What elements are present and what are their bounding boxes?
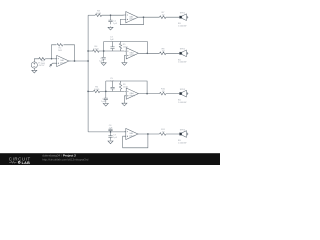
stage3 input wire xyxy=(88,90,93,92)
speaker SPK4 xyxy=(178,129,188,144)
svg-text:1.0000W: 1.0000W xyxy=(178,62,186,64)
junction bus stage3 xyxy=(87,91,89,93)
wire V1 top to R1 xyxy=(34,59,39,62)
capacitor C3 stage2 bridge xyxy=(110,37,115,51)
feedback wire U4 xyxy=(123,134,148,148)
svg-text:1kΩ: 1kΩ xyxy=(41,63,45,65)
svg-text:1μF: 1μF xyxy=(99,60,103,62)
svg-text:(ideal): (ideal) xyxy=(60,62,66,64)
stage2 non-inverting input to ground xyxy=(123,56,125,62)
resistor R5 stage2 bridge xyxy=(119,42,128,52)
svg-text:1Ω: 1Ω xyxy=(162,15,165,17)
svg-text:1μF: 1μF xyxy=(101,101,105,103)
svg-text:1μF: 1μF xyxy=(113,137,117,139)
svg-text:1.0000W: 1.0000W xyxy=(178,102,186,104)
speaker SPK1 xyxy=(178,13,188,28)
junction U2 output feedback xyxy=(146,52,148,54)
stage2 wire to op-amp xyxy=(99,50,124,52)
capacitor C2 stage2 to ground xyxy=(99,51,106,62)
junction bus op-amp output xyxy=(87,60,89,62)
stage2 output wire xyxy=(140,52,180,54)
speaker SPK3 xyxy=(178,89,188,104)
stage3 junction vertical to feedback line xyxy=(105,81,107,91)
node stage3 junction xyxy=(105,91,107,93)
svg-text:(ideal): (ideal) xyxy=(129,135,135,137)
junction U4 output feedback xyxy=(147,133,149,135)
resistor R1 xyxy=(39,57,45,64)
stage3 non-inverting input to ground xyxy=(123,96,125,103)
speaker SPK2 xyxy=(178,49,188,64)
resistor R9 stage3 bridge xyxy=(119,81,128,91)
op-amp U4 xyxy=(124,128,140,139)
CircuitLab logo xyxy=(9,156,31,164)
stage2 input wire xyxy=(88,50,93,52)
svg-text:(ideal): (ideal) xyxy=(129,19,135,21)
svg-text:LAB: LAB xyxy=(22,161,31,165)
ground stage2 op-amp xyxy=(122,62,127,66)
footer title text xyxy=(42,154,89,162)
node stage1 junction xyxy=(110,14,112,16)
stage1 output wire xyxy=(140,16,180,18)
bus vertical line xyxy=(87,15,89,132)
voltage source V1 xyxy=(31,62,45,68)
svg-text:1Ω: 1Ω xyxy=(162,91,165,93)
capacitor C1 stage1 xyxy=(108,15,117,25)
feedback resistor R2 xyxy=(56,43,63,52)
canvas background xyxy=(0,0,220,165)
svg-text:(ideal): (ideal) xyxy=(130,95,136,97)
svg-text:(ideal): (ideal) xyxy=(130,55,136,57)
ground stage3 cap xyxy=(103,103,108,107)
stage3 output wire xyxy=(140,93,180,95)
op-amp U0 xyxy=(55,55,71,66)
wire U0 output to bus xyxy=(70,60,88,62)
svg-text:1Ω: 1Ω xyxy=(162,131,165,133)
capacitor C4 stage3 to ground xyxy=(101,91,108,102)
stage4 output wire xyxy=(140,133,180,135)
node flag at U0 non-inverting input xyxy=(49,63,55,67)
svg-text:-1V/1V: -1V/1V xyxy=(38,65,45,67)
stage1 input wire xyxy=(88,14,95,16)
junction bus stage2 xyxy=(87,50,89,52)
capacitor C5 stage3 bridge xyxy=(110,78,115,91)
resistor R4 stage2 xyxy=(93,46,99,52)
junction U1 output feedback xyxy=(143,16,145,18)
resistor R8 stage2 output xyxy=(160,48,166,54)
svg-text:SPK3: SPK3 xyxy=(180,89,186,91)
svg-text:1μF: 1μF xyxy=(110,39,114,41)
svg-text:100Ω: 100Ω xyxy=(93,49,99,51)
ground stage3 op-amp xyxy=(122,102,127,106)
feedback loop wire around U0 xyxy=(52,45,75,61)
wire R1 to op-amp U0 inverting input xyxy=(45,58,55,60)
stage3 wire to op-amp xyxy=(100,90,124,92)
svg-text:1kΩ: 1kΩ xyxy=(58,50,62,52)
resistor R11 stage4 output xyxy=(160,129,166,135)
node stage4 junction xyxy=(110,131,112,133)
ground stage2 cap xyxy=(101,62,106,66)
svg-text:100Ω: 100Ω xyxy=(94,89,100,91)
svg-text:SPK2: SPK2 xyxy=(180,49,186,51)
resistor R10 stage3 output xyxy=(160,89,166,95)
ground stage1 cap xyxy=(108,26,113,30)
svg-text:1.0000W: 1.0000W xyxy=(178,142,186,144)
capacitor C6 stage4 above wire xyxy=(108,125,113,132)
op-amp U1 xyxy=(124,12,140,23)
node stage2 junction xyxy=(103,50,105,52)
svg-text:SPK4: SPK4 xyxy=(180,129,186,131)
svg-text:1Ω: 1Ω xyxy=(162,51,165,53)
stage1 wire R3 to junction and op-amp xyxy=(102,14,124,16)
resistor R7 stage1 output xyxy=(160,12,166,18)
svg-text:1μF: 1μF xyxy=(113,23,117,25)
junction U0 inverting input / feedback xyxy=(51,58,53,60)
ground stage4 cap xyxy=(108,140,113,143)
stage2 feedback top line xyxy=(104,42,148,54)
stage4 input wire xyxy=(88,131,124,133)
resistor R6 stage3 xyxy=(93,87,99,93)
footer bar xyxy=(0,153,220,165)
junction U3 output feedback xyxy=(146,93,148,95)
svg-text:http://circuitlab.com/c613mkcq: http://circuitlab.com/c613mkcqsa3rd xyxy=(42,158,89,162)
stage2 junction vertical to feedback line xyxy=(103,42,105,52)
stage3 feedback top line xyxy=(106,81,147,94)
svg-text:100Ω: 100Ω xyxy=(96,13,102,15)
capacitor C7 stage4 below wire xyxy=(108,132,117,140)
feedback wire U1 xyxy=(120,17,143,25)
svg-text:SPK1: SPK1 xyxy=(180,13,186,15)
svg-text:1.0000W: 1.0000W xyxy=(178,26,186,28)
op-amp U2 xyxy=(124,48,140,59)
ground below V1 xyxy=(32,68,37,73)
resistor R3 stage1 xyxy=(95,11,101,17)
svg-text:100Ω: 100Ω xyxy=(123,86,128,88)
op-amp U3 xyxy=(124,88,140,99)
svg-text:1μF: 1μF xyxy=(110,81,114,83)
junction U0 output / feedback xyxy=(74,60,76,62)
